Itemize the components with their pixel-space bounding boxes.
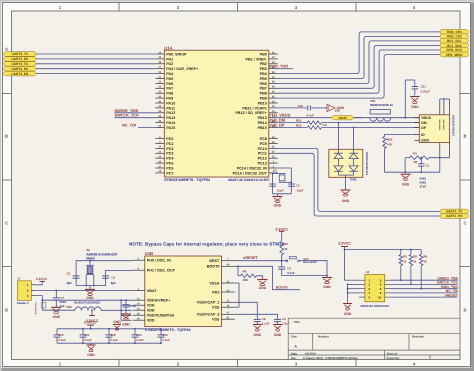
wire 3.3VCC rail to pull-up resistors <box>345 249 422 251</box>
svg-text:0.1uF: 0.1uF <box>287 271 295 275</box>
wire C32 to GND <box>311 107 327 109</box>
svg-text:C13: C13 <box>136 333 142 337</box>
svg-text:BOOT0: BOOT0 <box>276 286 288 290</box>
svg-text:STM32F446RET6 - TQFP64: STM32F446RET6 - TQFP64 <box>164 178 210 182</box>
power port 3.3VCC above R2 <box>281 231 283 241</box>
wire net USB_DM from PB14 to R22 <box>278 122 308 124</box>
ground GND right-arrow at C32 <box>327 104 335 112</box>
wire SW1 to GND <box>299 261 327 278</box>
wire shield top rail <box>440 98 450 100</box>
power port 3.3VCC below FB3 <box>91 310 93 315</box>
svg-text:FB3: FB3 <box>66 305 72 309</box>
svg-text:PB10: PB10 <box>258 101 267 105</box>
capacitor C3 <box>288 183 295 185</box>
svg-text:PC10: PC10 <box>258 147 267 151</box>
svg-text:PC12: PC12 <box>258 157 267 161</box>
svg-text:C: C <box>463 221 466 226</box>
capacitor C5 <box>73 275 80 277</box>
wire X2 ground rail <box>76 285 106 287</box>
svg-text:PB8: PB8 <box>260 92 267 96</box>
svg-text:X2: X2 <box>86 248 90 252</box>
svg-text:UART3_EN: UART3_EN <box>11 72 29 76</box>
svg-text:PC3: PC3 <box>166 152 173 156</box>
power port 3.3VCC at J1 <box>40 280 46 282</box>
svg-text:UART1_TX: UART1_TX <box>446 210 463 214</box>
J2 pin numbers <box>369 278 382 299</box>
svg-text:R22: R22 <box>296 118 302 122</box>
svg-text:20021121-00010C4LF: 20021121-00010C4LF <box>360 304 389 308</box>
capacitor C15 <box>125 300 127 305</box>
svg-text:8pF: 8pF <box>67 281 72 285</box>
svg-text:PA8: PA8 <box>166 92 173 96</box>
wire C31 vertical to VBUS row <box>404 80 406 118</box>
port SPI1_MISO <box>440 52 469 57</box>
wire VCAP_2 to C9 <box>235 314 278 316</box>
wire C31 branch <box>405 79 415 81</box>
svg-text:USB_DP: USB_DP <box>268 123 285 128</box>
connector U3 micro-USB body <box>419 115 449 143</box>
U1B right pins <box>197 258 235 322</box>
svg-text:R23: R23 <box>296 123 302 127</box>
svg-text:GND: GND <box>274 333 282 337</box>
svg-text:GND: GND <box>337 106 345 110</box>
svg-text:C14: C14 <box>162 333 168 337</box>
connector J2 body <box>365 275 385 302</box>
op-amp U1B body (MCU STM32F446RET6 section B) <box>145 256 222 327</box>
svg-text:MI0603K300R-10: MI0603K300R-10 <box>370 103 393 107</box>
wire net SWCLK_TCK from J2 <box>391 283 458 285</box>
svg-text:NOTE: Bypass Caps for internal: NOTE: Bypass Caps for internal regulator… <box>129 242 285 247</box>
svg-text:PB2: PB2 <box>260 62 267 66</box>
svg-text:nRESET: nRESET <box>445 293 459 297</box>
svg-text:ID: ID <box>421 133 425 137</box>
wire PH1 to crystal X2 <box>106 270 133 285</box>
svg-text:R6: R6 <box>424 255 428 259</box>
port TIM1_CH1 <box>440 29 469 34</box>
svg-text:PC8: PC8 <box>260 137 267 141</box>
wire R4 to GND <box>256 276 262 280</box>
svg-text:0.01uF: 0.01uF <box>421 90 430 94</box>
svg-text:PA15: PA15 <box>166 126 175 130</box>
svg-text:0.1uF: 0.1uF <box>110 338 118 342</box>
svg-text:PA2: PA2 <box>166 62 173 66</box>
capacitor C7 <box>55 291 57 298</box>
port SPI1_SCK <box>440 48 469 53</box>
svg-text:47pF: 47pF <box>420 184 427 188</box>
wire R1 left to rail <box>405 157 409 159</box>
svg-text:PA11: PA11 <box>166 106 175 110</box>
ground GND near U1B <box>125 312 127 315</box>
svg-text:VSS/VCAP_2: VSS/VCAP_2 <box>197 313 220 317</box>
svg-text:PA0_WKUP: PA0_WKUP <box>166 52 187 56</box>
wire net SWO_TDO from J2 <box>391 288 458 290</box>
svg-text:R2: R2 <box>284 242 288 246</box>
svg-text:NC_TDI: NC_TDI <box>122 123 136 128</box>
wire net SPI1_SCK from PB8 to top-right port <box>278 50 440 93</box>
wire BOOT0 to R4 <box>237 266 239 276</box>
ground GND below cap row <box>90 343 92 345</box>
svg-text:PD2: PD2 <box>212 290 219 294</box>
resistor R25 <box>383 137 387 149</box>
U1A left pins PA0-PA15 <box>155 51 198 130</box>
svg-text:SPI1_MISO: SPI1_MISO <box>446 53 463 57</box>
ground GND at SW1 <box>322 277 332 279</box>
svg-text:C:\Users\..\MCU - STM32F446RET: C:\Users\..\MCU - STM32F446RET6.SchDoc <box>303 357 358 360</box>
resistor R22 <box>307 121 321 125</box>
svg-text:GND: GND <box>274 203 282 207</box>
svg-text:PH0 / OSC_IN: PH0 / OSC_IN <box>147 259 171 263</box>
wire USB_DP to DA1 <box>353 128 355 150</box>
svg-text:PC6: PC6 <box>166 166 173 170</box>
ground GND below DA1 <box>341 189 351 191</box>
ground GND below C8 <box>253 324 262 326</box>
svg-text:1k: 1k <box>424 260 428 264</box>
diode array DA1 body <box>329 149 363 177</box>
port UART1_RX <box>440 214 469 219</box>
wire crystal ground rail <box>273 193 292 195</box>
wire bypass cap top rail 3.3VCC <box>57 328 161 330</box>
svg-text:PA9: PA9 <box>166 97 173 101</box>
svg-text:UART2_TX: UART2_TX <box>12 52 29 56</box>
wire PC15 to crystal X1 <box>273 173 278 194</box>
svg-text:PB5: PB5 <box>260 77 267 81</box>
svg-text:PB9: PB9 <box>260 97 267 101</box>
svg-text:VDD: VDD <box>147 304 155 308</box>
svg-text:PA7: PA7 <box>166 87 173 91</box>
svg-text:Date:: Date: <box>291 352 298 355</box>
svg-text:PB3: PB3 <box>260 67 267 71</box>
svg-text:D: D <box>463 308 466 313</box>
wire net UART1_RX from PC11 <box>278 153 440 216</box>
svg-text:4-5-2014: 4-5-2014 <box>305 352 316 355</box>
wire net USB_DM R22 to connector DM <box>322 122 420 124</box>
svg-text:TIM1_CH2: TIM1_CH2 <box>446 35 462 39</box>
svg-text:10pF: 10pF <box>277 188 284 192</box>
svg-text:DA1: DA1 <box>350 178 357 182</box>
svg-text:C11: C11 <box>84 333 90 337</box>
svg-text:PC4: PC4 <box>166 157 174 161</box>
svg-text:AB26T-32.768KHZ-8-12.5PF: AB26T-32.768KHZ-8-12.5PF <box>228 178 270 182</box>
svg-text:R5: R5 <box>413 255 417 259</box>
svg-text:X1: X1 <box>274 169 278 173</box>
wire R25 to shield rail <box>384 149 386 173</box>
port UART2_TX <box>4 52 37 57</box>
svg-text:1M: 1M <box>413 160 418 164</box>
svg-text:UART2_RX: UART2_RX <box>11 57 29 61</box>
svg-text:SWO_TDO: SWO_TDO <box>269 64 289 69</box>
capacitor C31 <box>414 80 416 87</box>
svg-text:DM: DM <box>421 121 427 125</box>
title block texts <box>291 320 424 360</box>
svg-text:C3: C3 <box>296 184 300 188</box>
port UART1_TX <box>440 209 469 214</box>
svg-text:NRST: NRST <box>209 259 220 263</box>
svg-text:8pF: 8pF <box>111 281 116 285</box>
svg-text:3.3VCC: 3.3VCC <box>275 227 288 231</box>
power port VBUS <box>331 116 354 120</box>
svg-text:J1: J1 <box>17 277 21 281</box>
wire bypass cap bottom rail GND <box>57 342 161 344</box>
wire VDDA row <box>42 299 133 301</box>
capacitor C1 <box>420 158 422 164</box>
svg-text:10: 10 <box>378 295 382 299</box>
wire to ferrite FB3 <box>42 309 75 311</box>
svg-text:VDDA/VREF+: VDDA/VREF+ <box>147 299 170 303</box>
wire J1 pin1 to 3.3VCC <box>34 282 42 285</box>
wire C4 to SW1 ground <box>282 275 327 277</box>
svg-text:PC14 / OSC32_IN: PC14 / OSC32_IN <box>237 166 267 170</box>
svg-text:PB12 / SD_VREF+: PB12 / SD_VREF+ <box>235 111 266 115</box>
svg-text:PB1 / VREF-: PB1 / VREF- <box>245 57 267 61</box>
svg-text:SPI1_SCK: SPI1_SCK <box>446 48 462 52</box>
U1B left pins <box>133 258 176 323</box>
crystal X2 <box>86 261 94 286</box>
svg-text:VDD: VDD <box>147 319 155 323</box>
wire shield vertical to rail <box>439 158 441 173</box>
svg-text:PA6: PA6 <box>166 82 173 86</box>
svg-text:PA4: PA4 <box>166 72 174 76</box>
svg-text:B3U-1000P: B3U-1000P <box>303 261 317 264</box>
svg-text:GND: GND <box>344 312 352 316</box>
title block <box>288 318 460 359</box>
ground GND below C9 <box>273 324 282 326</box>
capacitor C10 <box>56 329 58 335</box>
svg-text:PC11: PC11 <box>258 152 267 156</box>
resistor R23 <box>307 126 321 130</box>
port UART2_RX <box>4 57 37 62</box>
svg-text:UART3_RX: UART3_RX <box>11 67 29 71</box>
svg-text:VSS/VCAP_1: VSS/VCAP_1 <box>197 301 220 305</box>
svg-text:Cut-Current: Cut-Current <box>34 302 37 315</box>
svg-text:DP: DP <box>421 126 427 130</box>
wire USB_DM to DA1 <box>338 123 340 150</box>
svg-text:1k: 1k <box>413 260 417 264</box>
svg-text:C31: C31 <box>421 85 427 89</box>
svg-text:D: D <box>5 308 8 313</box>
svg-text:PA14: PA14 <box>166 121 176 125</box>
DA1 internal TVS diodes <box>334 149 358 175</box>
wire net SWCLK_TCK to PA13 <box>115 117 156 119</box>
svg-text:Revision: Revision <box>412 335 424 339</box>
svg-text:3.3VCC: 3.3VCC <box>84 321 97 325</box>
U3 shield pins top SHL3 SHL4 <box>439 99 441 115</box>
svg-text:10K: 10K <box>243 278 249 282</box>
port UART3_RX <box>4 66 37 71</box>
svg-text:Size: Size <box>291 335 297 339</box>
svg-text:VBAT: VBAT <box>147 289 158 293</box>
svg-text:VBUS: VBUS <box>338 116 346 120</box>
svg-text:I2C1_SCL: I2C1_SCL <box>447 39 462 43</box>
wire FB3 to U1B VDD <box>101 309 132 311</box>
op-amp U1A body (MCU STM32F446RET6 section A) <box>164 50 268 177</box>
svg-text:VBUS: VBUS <box>421 116 431 120</box>
svg-text:VSS: VSS <box>212 318 220 322</box>
svg-text:0.1uF: 0.1uF <box>58 338 66 342</box>
wire R1 right to shield pins <box>429 157 450 159</box>
wire PH0 to crystal X2 <box>76 261 133 286</box>
svg-text:BLM21PG300SN1D: BLM21PG300SN1D <box>74 301 100 305</box>
svg-text:10pF: 10pF <box>297 188 304 192</box>
svg-text:PB15: PB15 <box>258 126 267 130</box>
resistor R3 <box>400 250 402 255</box>
svg-text:PA1: PA1 <box>166 57 173 61</box>
svg-text:PESD5V0X2BT,215: PESD5V0X2BT,215 <box>365 152 368 176</box>
svg-text:PB7: PB7 <box>260 87 267 91</box>
capacitor C13 <box>134 329 136 335</box>
capacitor C12 <box>108 329 110 335</box>
svg-text:B: B <box>463 134 466 139</box>
ferrite bead FB3 <box>75 307 101 310</box>
wire DA1 to GND <box>345 175 347 190</box>
U1A right pins PC8-PC15 <box>233 136 278 175</box>
svg-text:Sheet of: Sheet of <box>387 352 398 355</box>
svg-text:PB4: PB4 <box>260 72 268 76</box>
resistor R4 <box>238 275 241 277</box>
U3 left pins <box>414 116 431 143</box>
svg-text:PC15 / OSC32_OUT: PC15 / OSC32_OUT <box>233 171 268 175</box>
svg-text:GND: GND <box>113 320 121 324</box>
ground GND on shield rail <box>401 173 411 175</box>
power port 3.3VCC at cap row <box>90 325 92 329</box>
svg-text:VDD/VUSB/VSA: VDD/VUSB/VSA <box>147 314 175 318</box>
wire VBUS row to USB connector <box>354 117 419 119</box>
capacitor C11 <box>82 329 84 335</box>
wire net UART2_TX to PA0 <box>36 53 155 55</box>
svg-text:0.1uF: 0.1uF <box>130 305 137 308</box>
wire J1 pin2 VBAT rail <box>34 290 133 292</box>
svg-text:C: C <box>5 221 8 226</box>
svg-text:GND: GND <box>411 105 419 109</box>
svg-text:GND: GND <box>122 322 130 326</box>
svg-text:PB13: PB13 <box>258 116 267 120</box>
switch SW1 <box>286 257 299 262</box>
wire net nRESET from U1B NRST <box>235 260 287 262</box>
svg-text:C5: C5 <box>67 271 71 275</box>
capacitor C32 <box>307 105 309 110</box>
svg-text:2.2uF: 2.2uF <box>282 322 290 326</box>
svg-text:C10: C10 <box>58 333 64 337</box>
capacitor C8 <box>256 317 258 320</box>
ground GND at R4 <box>257 279 267 281</box>
port TIM1_CH2 <box>440 34 469 39</box>
wire net UART3_TX to PA2 <box>36 63 155 65</box>
ground GND below X2 <box>85 288 95 290</box>
svg-text:PC2: PC2 <box>166 147 173 151</box>
svg-text:GND: GND <box>53 315 61 319</box>
resistor R2 <box>280 241 284 255</box>
svg-text:GND: GND <box>87 353 95 357</box>
svg-text:1k: 1k <box>284 247 288 251</box>
wire net SWO_TDO from PB3 <box>278 68 293 70</box>
wire VSSA/VSS vertical <box>235 282 239 284</box>
svg-text:PA5: PA5 <box>166 77 173 81</box>
svg-text:TIM1_CH1: TIM1_CH1 <box>446 30 462 34</box>
svg-text:2.2uF: 2.2uF <box>262 322 270 326</box>
J2 left pins and GND ties <box>359 280 365 297</box>
wire net I2C1_SDA from PB7 to top-right port <box>278 46 440 89</box>
svg-text:PB6: PB6 <box>260 82 267 86</box>
svg-text:U1A: U1A <box>164 45 172 50</box>
svg-text:PA12: PA12 <box>166 111 175 115</box>
wire J2 pin1 to 3.3VCC <box>345 279 359 281</box>
J2 right pins <box>385 280 391 297</box>
svg-text:0.1uF: 0.1uF <box>136 338 144 342</box>
svg-text:R25: R25 <box>387 138 393 142</box>
svg-text:PH1 / OSC_OUT: PH1 / OSC_OUT <box>147 269 176 273</box>
svg-text:PC9: PC9 <box>260 142 267 146</box>
capacitor C9 <box>277 317 279 320</box>
port UART3_TX <box>4 62 37 67</box>
wire net nRESET from J2 <box>391 296 458 298</box>
svg-text:C4: C4 <box>287 267 291 271</box>
svg-text:0.1uF: 0.1uF <box>84 338 92 342</box>
wire net SWDIO_TMS from J2 <box>391 279 458 281</box>
svg-text:PC13: PC13 <box>258 162 267 166</box>
svg-text:PC1: PC1 <box>166 142 173 146</box>
wire net UART3_RX to PA3 <box>36 68 155 70</box>
svg-text:UART3_TX: UART3_TX <box>12 62 29 66</box>
svg-text:VSSA: VSSA <box>209 281 219 285</box>
svg-text:Drawn By:: Drawn By: <box>387 357 400 360</box>
svg-text:PA13: PA13 <box>166 116 175 120</box>
svg-text:C1: C1 <box>426 164 430 168</box>
wire net I2C1_SCL from PB6 to top-right port <box>278 41 440 84</box>
wire net SWDIO_TMS to PA12 <box>115 112 156 114</box>
capacitor C4 <box>281 261 283 267</box>
svg-text:PC0: PC0 <box>166 137 173 141</box>
port UART3_EN <box>4 71 37 76</box>
svg-text:R3: R3 <box>403 255 407 259</box>
svg-text:GND: GND <box>323 285 331 289</box>
svg-text:22R: 22R <box>322 124 327 127</box>
resistor R6 <box>420 250 422 255</box>
wire net USB_DP R23 to connector DP <box>322 127 420 129</box>
capacitor C2 <box>269 183 276 185</box>
svg-text:3.3VCC: 3.3VCC <box>338 242 351 246</box>
wire net TIM1_CH2 from PB5 to top-right port <box>278 36 440 78</box>
U3 shield pins bottom SHL1 SHL2 <box>439 143 441 158</box>
svg-text:PC7: PC7 <box>166 171 173 175</box>
svg-text:UART1_RX: UART1_RX <box>446 214 464 218</box>
svg-text:Header 3: Header 3 <box>17 301 29 305</box>
svg-text:GND: GND <box>342 199 350 203</box>
svg-text:C9: C9 <box>282 317 286 321</box>
svg-text:1k: 1k <box>403 260 407 264</box>
U1A right pins PB0-PB15 <box>235 51 277 130</box>
ground GND below C7 <box>51 306 61 308</box>
svg-text:PB14: PB14 <box>258 121 268 125</box>
resistor R1 <box>410 156 429 160</box>
svg-text:R1: R1 <box>413 152 417 156</box>
wire VCAP_1 to C8 <box>235 302 257 316</box>
capacitor C14 <box>160 329 162 335</box>
wire J2 odd pins to GND <box>348 283 359 285</box>
svg-text:I2C1_SDA: I2C1_SDA <box>447 44 463 48</box>
svg-text:PB11 / VCAP1: PB11 / VCAP1 <box>242 106 266 110</box>
wire net USB_DP from PB15 to R23 <box>278 127 308 129</box>
svg-text:VDD: VDD <box>147 309 155 313</box>
svg-text:C6: C6 <box>111 275 115 279</box>
svg-text:R4: R4 <box>243 269 247 273</box>
capacitor C6 <box>102 275 109 277</box>
wire net UART3_EN to PA4 <box>36 73 155 75</box>
wire net NC_TDI from J2 <box>391 292 458 294</box>
svg-text:PA10: PA10 <box>166 101 175 105</box>
svg-text:10118192-0001LF: 10118192-0001LF <box>452 115 455 137</box>
svg-text:PB0: PB0 <box>260 52 267 56</box>
svg-text:Number: Number <box>318 335 330 339</box>
wire U3 GND pin to R25 <box>385 135 420 137</box>
